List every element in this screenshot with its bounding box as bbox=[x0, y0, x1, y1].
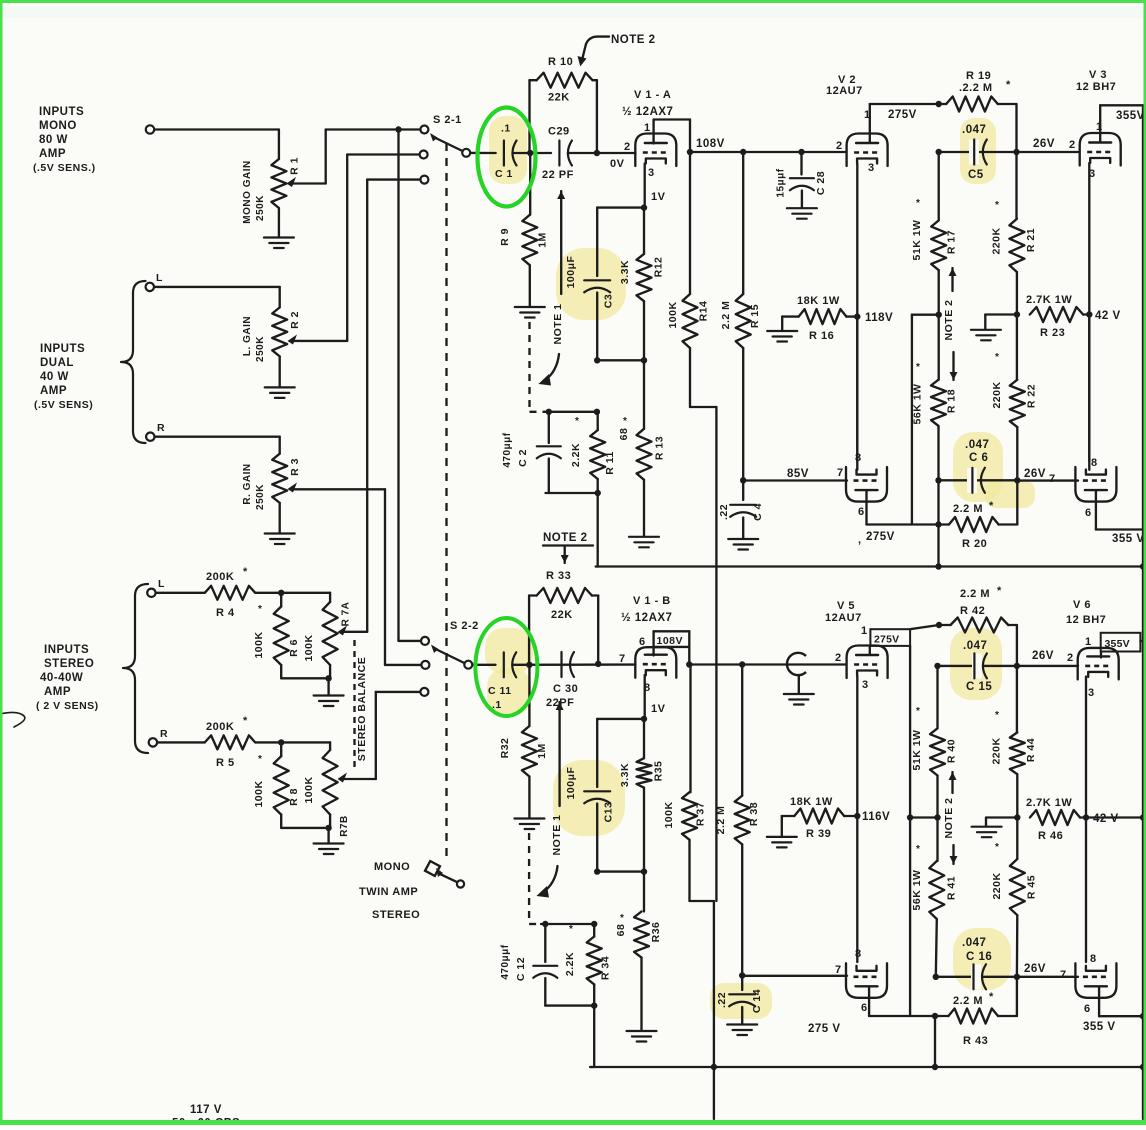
svg-text:R: R bbox=[157, 422, 165, 434]
svg-text:100K: 100K bbox=[253, 631, 265, 658]
svg-text:3.3K: 3.3K bbox=[619, 260, 631, 284]
switch S2-2 bbox=[421, 620, 479, 669]
svg-text:STEREO: STEREO bbox=[372, 909, 420, 921]
svg-text:56K 1W: 56K 1W bbox=[911, 870, 923, 911]
label INPUTS STEREO 40-40W AMP (2 V SENS) bbox=[36, 644, 99, 712]
svg-text:(.5V SENS.): (.5V SENS.) bbox=[33, 162, 96, 174]
svg-text:1V: 1V bbox=[651, 191, 666, 203]
svg-text:(.5V SENS): (.5V SENS) bbox=[34, 399, 93, 411]
input terminal L bbox=[146, 272, 163, 291]
svg-text:R 46: R 46 bbox=[1038, 830, 1063, 842]
svg-text:2: 2 bbox=[624, 141, 631, 153]
node bbox=[278, 739, 284, 745]
svg-text:2: 2 bbox=[835, 652, 842, 664]
ground tap bbox=[972, 818, 1018, 838]
svg-text:NOTE 2: NOTE 2 bbox=[943, 300, 955, 341]
svg-text:2.2 M: 2.2 M bbox=[960, 588, 990, 600]
svg-text:*: * bbox=[623, 416, 627, 427]
svg-text:R 45: R 45 bbox=[1026, 875, 1038, 899]
resistor R38 2.2M bbox=[715, 665, 760, 976]
capacitor C11 .1 bbox=[488, 652, 516, 711]
ground bbox=[728, 539, 758, 550]
triode V1-A 1/2 12AX7 bbox=[610, 89, 676, 203]
svg-text:R 4: R 4 bbox=[216, 607, 235, 619]
stray mark bbox=[0, 712, 25, 727]
triode V3 12BH7 (upper) bbox=[1076, 69, 1121, 180]
green ellipse C1 bbox=[478, 108, 536, 207]
label 108V bbox=[696, 138, 725, 150]
node bbox=[687, 149, 693, 155]
node bbox=[1014, 663, 1020, 669]
svg-text:.047: .047 bbox=[965, 439, 989, 451]
svg-text:220K: 220K bbox=[991, 227, 1003, 254]
input terminal L stereo bbox=[147, 578, 165, 597]
svg-text:R 39: R 39 bbox=[806, 828, 831, 840]
svg-text:470μμf: 470μμf bbox=[500, 944, 511, 979]
wire plate V1-A bbox=[654, 120, 690, 153]
wire bbox=[155, 436, 280, 438]
node 42V bbox=[1083, 813, 1119, 825]
svg-text:R 44: R 44 bbox=[1025, 738, 1037, 762]
svg-text:R 19: R 19 bbox=[966, 70, 991, 82]
resistor R21 220K bbox=[991, 152, 1038, 315]
note 2 vertical marker bbox=[943, 268, 958, 380]
svg-text:L: L bbox=[156, 272, 163, 284]
svg-text:220K: 220K bbox=[991, 381, 1003, 408]
svg-text:18K 1W: 18K 1W bbox=[790, 796, 833, 808]
node bbox=[935, 477, 941, 483]
wire bbox=[935, 525, 941, 570]
svg-text:V 6: V 6 bbox=[1073, 599, 1091, 611]
wire 1V bar bbox=[597, 716, 647, 722]
svg-text:R36: R36 bbox=[650, 922, 662, 943]
svg-text:.2.2 M: .2.2 M bbox=[959, 82, 993, 94]
svg-text:2: 2 bbox=[1067, 652, 1074, 664]
switch contact bbox=[420, 176, 428, 184]
svg-text:117 V: 117 V bbox=[190, 1104, 222, 1116]
svg-text:R: R bbox=[160, 728, 168, 740]
svg-text:R 7A: R 7A bbox=[341, 602, 352, 627]
svg-text:200K: 200K bbox=[206, 721, 234, 733]
svg-text:R. GAIN: R. GAIN bbox=[242, 463, 253, 504]
wire plate V1-B 108V box bbox=[654, 631, 690, 664]
wire bbox=[596, 493, 598, 567]
svg-text:2: 2 bbox=[836, 140, 843, 152]
svg-text:2.2 M: 2.2 M bbox=[715, 806, 727, 835]
resistor R8 100K bbox=[253, 742, 300, 828]
label 50-60 cps bbox=[172, 1118, 240, 1130]
svg-text:220K: 220K bbox=[991, 872, 1003, 899]
triode V3 (lower) bbox=[1075, 457, 1116, 519]
resistor R5 200K bbox=[157, 715, 330, 769]
svg-text:INPUTS: INPUTS bbox=[44, 644, 89, 656]
svg-text:C 6: C 6 bbox=[969, 452, 988, 464]
node bbox=[527, 150, 533, 156]
svg-text:*: * bbox=[989, 991, 994, 1003]
resistor R19 2.2M bbox=[936, 70, 1017, 152]
resistor R13 68 bbox=[618, 360, 666, 536]
node bbox=[1014, 814, 1020, 820]
svg-text:26V: 26V bbox=[1024, 468, 1046, 480]
svg-text:NOTE 2: NOTE 2 bbox=[943, 798, 955, 839]
wire bbox=[545, 1002, 597, 1008]
wire bbox=[385, 489, 421, 665]
wire divider rail bbox=[596, 563, 1146, 569]
svg-text:3: 3 bbox=[648, 167, 655, 179]
input terminal R bbox=[146, 422, 165, 441]
svg-text:L: L bbox=[158, 578, 165, 590]
node bbox=[594, 150, 600, 156]
svg-text:*: * bbox=[620, 913, 624, 924]
svg-text:2.7K 1W: 2.7K 1W bbox=[1026, 797, 1072, 809]
svg-text:R 22: R 22 bbox=[1026, 384, 1038, 408]
node bbox=[907, 814, 913, 820]
svg-text:2.2 M: 2.2 M bbox=[720, 301, 732, 330]
svg-text:*: * bbox=[995, 842, 999, 853]
svg-text:R 37: R 37 bbox=[695, 802, 707, 826]
wire bbox=[568, 152, 636, 154]
potentiometer R1 MONO GAIN 250K bbox=[242, 130, 326, 238]
wire 275V rail bbox=[858, 491, 939, 547]
svg-text:MONO: MONO bbox=[39, 120, 77, 132]
svg-text:*: * bbox=[995, 352, 999, 363]
wire plate V5 275V box bbox=[870, 629, 910, 1016]
wire plate V3 355V bbox=[1100, 105, 1145, 142]
resistor R6 100K bbox=[253, 593, 300, 679]
svg-text:C 11: C 11 bbox=[488, 685, 512, 697]
ground bbox=[264, 238, 294, 249]
svg-text:6: 6 bbox=[1084, 1003, 1091, 1015]
svg-text:100μF: 100μF bbox=[565, 766, 577, 799]
svg-text:108V: 108V bbox=[657, 635, 684, 647]
wire cathode V5 bbox=[856, 676, 858, 963]
svg-text:18K 1W: 18K 1W bbox=[797, 295, 840, 307]
svg-text:R 40: R 40 bbox=[946, 739, 958, 763]
svg-text:STEREO: STEREO bbox=[44, 658, 94, 670]
note 1 marker bbox=[538, 191, 565, 386]
svg-text:80 W: 80 W bbox=[39, 134, 68, 146]
svg-text:8: 8 bbox=[1091, 457, 1098, 469]
svg-text:AMP: AMP bbox=[39, 148, 66, 160]
svg-text:R35: R35 bbox=[653, 761, 665, 782]
svg-text:INPUTS: INPUTS bbox=[39, 106, 84, 118]
svg-text:275V: 275V bbox=[866, 531, 895, 543]
svg-text:56K 1W: 56K 1W bbox=[912, 384, 924, 425]
wire bbox=[513, 663, 636, 666]
svg-text:118V: 118V bbox=[865, 312, 893, 324]
label MONO TWIN AMP STEREO bbox=[359, 861, 420, 921]
node bbox=[740, 149, 746, 155]
svg-text:R14: R14 bbox=[698, 301, 710, 322]
svg-text:26V: 26V bbox=[1033, 138, 1055, 150]
svg-text:*: * bbox=[995, 200, 999, 211]
svg-text:*: * bbox=[995, 710, 999, 721]
svg-text:½ 12AX7: ½ 12AX7 bbox=[621, 612, 672, 624]
svg-text:*: * bbox=[243, 715, 248, 727]
label 118V bbox=[854, 312, 893, 324]
svg-text:R7B: R7B bbox=[339, 815, 350, 837]
svg-text:7: 7 bbox=[1049, 473, 1056, 485]
svg-text:355 V: 355 V bbox=[1083, 1021, 1116, 1033]
svg-text:*: * bbox=[989, 500, 994, 512]
label 116V bbox=[854, 811, 890, 823]
potentiometer R3 R.GAIN 250K bbox=[242, 437, 385, 533]
svg-text:26V: 26V bbox=[1024, 963, 1046, 975]
svg-text:355 V: 355 V bbox=[1112, 533, 1145, 545]
svg-text:C 28: C 28 bbox=[815, 171, 827, 195]
svg-text:100K: 100K bbox=[663, 801, 675, 828]
svg-text:7: 7 bbox=[835, 964, 842, 976]
svg-text:*: * bbox=[243, 566, 248, 578]
svg-text:68: 68 bbox=[618, 428, 630, 441]
ground bbox=[314, 828, 344, 854]
svg-text:C 14: C 14 bbox=[751, 989, 763, 1013]
node bbox=[798, 149, 804, 155]
svg-text:.047: .047 bbox=[962, 124, 986, 136]
svg-text:.1: .1 bbox=[501, 123, 511, 135]
svg-text:250K: 250K bbox=[255, 195, 266, 221]
svg-text:51K 1W: 51K 1W bbox=[911, 730, 923, 771]
svg-text:R 5: R 5 bbox=[216, 757, 235, 769]
node bbox=[1014, 974, 1020, 980]
svg-text:100K: 100K bbox=[667, 301, 679, 328]
svg-text:40 W: 40 W bbox=[40, 371, 69, 383]
svg-text:S 2-1: S 2-1 bbox=[433, 114, 462, 126]
svg-text:8: 8 bbox=[855, 948, 862, 960]
wire 26V bbox=[1017, 963, 1078, 981]
svg-text:*: * bbox=[916, 362, 920, 373]
resistor R45 220K bbox=[991, 818, 1038, 977]
svg-text:R32: R32 bbox=[499, 738, 511, 759]
svg-text:*: * bbox=[916, 198, 920, 209]
resistor R15 2.2M bbox=[720, 152, 761, 480]
wire 355V lower rail bbox=[1083, 987, 1146, 1034]
note 2 vertical marker bbox=[943, 772, 958, 864]
svg-text:½ 12AX7: ½ 12AX7 bbox=[622, 106, 673, 118]
svg-text:R 23: R 23 bbox=[1040, 327, 1065, 339]
svg-text:V 1 - A: V 1 - A bbox=[634, 89, 671, 101]
svg-text:C 12: C 12 bbox=[515, 957, 527, 981]
wire bbox=[472, 664, 495, 666]
wire bbox=[326, 130, 421, 184]
mono input terminal bbox=[146, 125, 154, 133]
wire bbox=[367, 180, 420, 632]
triode V1-B 1/2 12AX7 bbox=[619, 595, 676, 715]
paper tint bbox=[0, 6, 1146, 18]
svg-text:275V: 275V bbox=[888, 109, 917, 121]
green ellipse C11 bbox=[475, 618, 537, 716]
wire 1V bar bbox=[597, 204, 647, 210]
resistor R16 18K 1W bbox=[767, 295, 855, 342]
dashed gang line bbox=[445, 143, 447, 862]
capacitor C15 .047 bbox=[938, 640, 1017, 693]
node bbox=[686, 661, 692, 667]
svg-text:AMP: AMP bbox=[44, 686, 71, 698]
wire bbox=[742, 975, 847, 977]
svg-text:R 2: R 2 bbox=[289, 311, 301, 329]
svg-text:V 3: V 3 bbox=[1089, 69, 1107, 81]
svg-text:R 8: R 8 bbox=[288, 788, 300, 806]
resistor R34 2.2K bbox=[564, 924, 612, 1006]
svg-text:.22: .22 bbox=[716, 992, 728, 1008]
svg-text:*: * bbox=[258, 754, 262, 765]
wire bbox=[470, 152, 495, 154]
resistor R37 100K bbox=[663, 665, 714, 902]
selector switch bbox=[425, 861, 464, 888]
svg-text:7: 7 bbox=[837, 467, 844, 479]
svg-text:26V: 26V bbox=[1032, 650, 1054, 662]
svg-text:355V: 355V bbox=[1116, 110, 1145, 122]
resistor R14 100K bbox=[667, 152, 716, 407]
svg-text:*: * bbox=[916, 844, 920, 855]
capacitor C2 470uuf bbox=[502, 412, 561, 493]
wire bus R14/R37 to bottom rail bbox=[714, 407, 717, 1119]
ground bbox=[314, 678, 344, 706]
svg-text:C3: C3 bbox=[603, 294, 615, 308]
resistor R32 1M bbox=[499, 665, 548, 818]
wire plate V6 355V box bbox=[1101, 633, 1143, 658]
node bbox=[1014, 477, 1020, 483]
label INPUTS MONO 80W AMP (.5V SENS.) bbox=[33, 106, 96, 174]
svg-text:275 V: 275 V bbox=[808, 1023, 841, 1035]
capacitor C12 470uuf bbox=[500, 924, 557, 1006]
node bbox=[934, 814, 940, 820]
svg-text:2.2K: 2.2K bbox=[570, 443, 582, 467]
svg-text:R 43: R 43 bbox=[963, 1035, 988, 1047]
svg-text:100K: 100K bbox=[303, 634, 315, 661]
svg-text:6: 6 bbox=[861, 1002, 868, 1014]
resistor R9 1M bbox=[499, 153, 549, 307]
svg-text:( 2 V SENS): ( 2 V SENS) bbox=[36, 700, 99, 712]
svg-text:3.3K: 3.3K bbox=[619, 763, 631, 787]
ground bbox=[515, 307, 545, 318]
capacitor C6 .047 bbox=[939, 439, 1018, 493]
svg-text:2.2 M: 2.2 M bbox=[953, 995, 983, 1007]
resistor R46 2.7K 1W bbox=[1026, 797, 1086, 842]
resistor R33 22K bbox=[529, 570, 598, 665]
wire plate V2 bbox=[870, 104, 939, 143]
capacitor C3 100uF bbox=[565, 208, 615, 361]
svg-text:*: * bbox=[258, 604, 262, 615]
svg-text:2.7K 1W: 2.7K 1W bbox=[1026, 294, 1072, 306]
svg-text:51K 1W: 51K 1W bbox=[911, 220, 923, 261]
svg-text:C29: C29 bbox=[548, 126, 570, 138]
potentiometer R7B 100K bbox=[303, 742, 376, 836]
note 2 leader bbox=[578, 34, 656, 66]
node bbox=[1013, 149, 1019, 155]
svg-text:42 V: 42 V bbox=[1095, 310, 1121, 322]
svg-text:R 42: R 42 bbox=[960, 605, 985, 617]
resistor R39 18K 1W bbox=[767, 796, 856, 847]
wire bbox=[281, 825, 332, 831]
svg-text:1: 1 bbox=[644, 122, 651, 134]
switch contact bbox=[420, 151, 428, 159]
svg-text:C 16: C 16 bbox=[966, 951, 992, 963]
svg-text:.22: .22 bbox=[718, 504, 730, 520]
svg-text:42 V: 42 V bbox=[1093, 813, 1119, 825]
svg-text:85V: 85V bbox=[787, 468, 809, 480]
wire bottom rail bbox=[590, 1064, 1146, 1070]
svg-text:12 BH7: 12 BH7 bbox=[1066, 614, 1106, 626]
ground tap bbox=[971, 315, 1017, 341]
svg-text:355V: 355V bbox=[1105, 638, 1130, 650]
svg-text:STEREO BALANCE: STEREO BALANCE bbox=[356, 657, 368, 761]
dashed note-1 wire bbox=[529, 833, 542, 924]
svg-text:7: 7 bbox=[619, 653, 626, 665]
brace bbox=[121, 281, 146, 443]
brace bbox=[123, 584, 148, 753]
wire bbox=[281, 675, 332, 681]
node bbox=[740, 477, 746, 483]
wire cathode V6 bbox=[1085, 677, 1087, 963]
svg-text:L. GAIN: L. GAIN bbox=[242, 316, 253, 356]
svg-text:3: 3 bbox=[1088, 687, 1095, 699]
wire bbox=[590, 1006, 594, 1067]
wire bbox=[376, 692, 420, 779]
wire cathode V1-A bbox=[644, 164, 646, 208]
svg-text:40-40W: 40-40W bbox=[40, 672, 83, 684]
capacitor C16 .047 bbox=[936, 937, 1017, 990]
svg-text:6: 6 bbox=[1085, 507, 1092, 519]
triode V5 12AU7 (upper) bbox=[825, 600, 888, 691]
capacitor C1 .1 bbox=[495, 123, 517, 181]
svg-text:TWIN AMP: TWIN AMP bbox=[359, 886, 418, 898]
capacitor C29 22PF bbox=[542, 126, 574, 182]
label INPUTS DUAL 40W AMP (.5V SENS) bbox=[34, 343, 93, 411]
svg-text:C13: C13 bbox=[603, 802, 615, 823]
svg-text:,: , bbox=[858, 534, 862, 546]
capacitor C13 100uF bbox=[565, 719, 615, 872]
svg-text:R 21: R 21 bbox=[1025, 228, 1037, 252]
wire bbox=[347, 155, 419, 341]
wire bbox=[690, 151, 846, 153]
svg-text:220K: 220K bbox=[991, 737, 1003, 764]
node bbox=[595, 661, 601, 667]
wire bbox=[1086, 814, 1146, 820]
svg-text:6: 6 bbox=[858, 506, 865, 518]
input terminal R stereo bbox=[149, 728, 168, 747]
svg-text:200K: 200K bbox=[206, 571, 234, 583]
resistor R35 3.3K bbox=[619, 719, 665, 872]
triode V2 12AU7 (upper) bbox=[826, 74, 888, 174]
svg-text:12AU7: 12AU7 bbox=[825, 612, 862, 624]
svg-text:470μμf: 470μμf bbox=[502, 432, 513, 467]
resistor R23 2.7K 1W bbox=[1026, 294, 1089, 339]
ground bbox=[265, 387, 295, 398]
svg-text:1M: 1M bbox=[536, 743, 548, 759]
svg-text:R 15: R 15 bbox=[749, 304, 761, 328]
ground bbox=[629, 537, 659, 548]
svg-text:R 6: R 6 bbox=[288, 639, 300, 657]
triode V2 (lower) bbox=[837, 452, 887, 518]
svg-text:R 34: R 34 bbox=[600, 956, 612, 980]
svg-text:.047: .047 bbox=[963, 640, 987, 652]
svg-text:2.2K: 2.2K bbox=[564, 952, 576, 976]
resistor R11 2.2K bbox=[570, 412, 616, 493]
svg-text:S 2-2: S 2-2 bbox=[450, 620, 479, 632]
svg-text:R 9: R 9 bbox=[499, 228, 511, 246]
svg-text:15μμf: 15μμf bbox=[776, 168, 787, 197]
svg-text:1: 1 bbox=[1085, 636, 1092, 648]
svg-text:*: * bbox=[1006, 79, 1011, 91]
node mono bus bbox=[395, 126, 401, 132]
svg-text:22K: 22K bbox=[548, 92, 570, 104]
svg-text:2: 2 bbox=[1069, 139, 1076, 151]
svg-text:1V: 1V bbox=[651, 703, 666, 715]
svg-text:V 1 - B: V 1 - B bbox=[633, 595, 671, 607]
svg-text:100μF: 100μF bbox=[565, 255, 577, 288]
svg-text:R12: R12 bbox=[653, 257, 665, 278]
